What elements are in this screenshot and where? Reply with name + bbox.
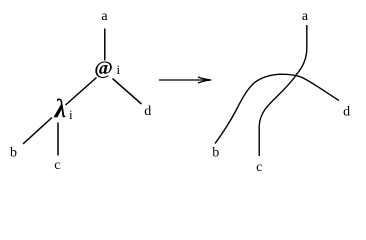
svg-text:i: i [69,107,73,122]
svg-text:λ: λ [54,94,67,123]
svg-text:d: d [144,104,151,119]
svg-text:a: a [101,9,108,24]
svg-text:@: @ [94,57,113,79]
svg-text:c: c [54,158,60,173]
svg-text:c: c [256,160,262,175]
wire b to d [215,74,339,143]
wire @ to d [113,79,142,105]
svg-text:d: d [343,105,350,120]
reduction arrow [159,77,211,83]
svg-text:a: a [302,9,309,24]
svg-text:b: b [212,146,219,161]
wire a to @ [104,29,106,61]
wire lambda to c [57,123,59,156]
wire lambda to b [23,118,52,145]
wire @ to lambda [66,78,97,106]
svg-text:i: i [117,62,121,77]
svg-text:b: b [10,146,17,161]
wire a to c [259,25,307,156]
